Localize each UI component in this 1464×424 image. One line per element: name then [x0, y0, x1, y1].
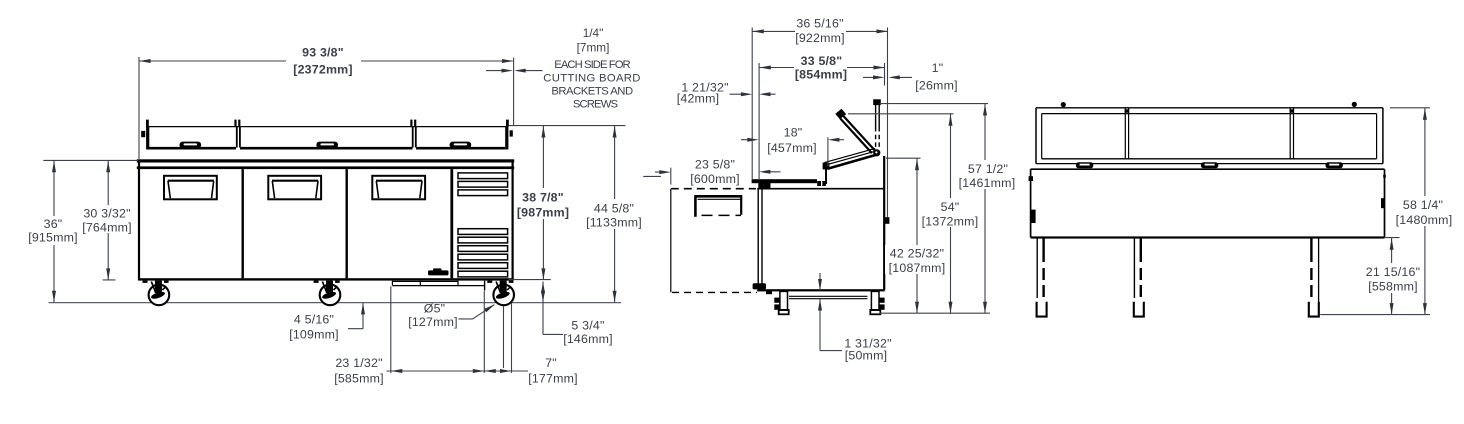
svg-text:[922mm]: [922mm]	[795, 31, 845, 45]
svg-text:[146mm]: [146mm]	[563, 332, 613, 346]
svg-text:[1461mm]: [1461mm]	[959, 176, 1016, 190]
svg-text:54": 54"	[941, 200, 960, 214]
svg-text:[558mm]: [558mm]	[1368, 280, 1418, 294]
svg-text:38 7/8": 38 7/8"	[522, 190, 564, 204]
svg-text:23 5/8": 23 5/8"	[695, 157, 735, 171]
svg-text:[127mm]: [127mm]	[408, 315, 458, 329]
svg-text:[42mm]: [42mm]	[677, 91, 720, 105]
svg-text:36 5/16": 36 5/16"	[796, 16, 843, 30]
svg-text:4 5/16": 4 5/16"	[294, 312, 334, 326]
svg-text:33 5/8": 33 5/8"	[801, 54, 843, 68]
svg-text:[915mm]: [915mm]	[28, 230, 78, 244]
svg-text:[2372mm]: [2372mm]	[293, 62, 352, 76]
svg-text:[457mm]: [457mm]	[767, 141, 817, 155]
svg-text:EACH SIDE FOR: EACH SIDE FOR	[554, 59, 630, 71]
svg-text:7": 7"	[545, 356, 557, 370]
svg-text:SCREWS: SCREWS	[573, 99, 619, 111]
svg-text:[1087mm]: [1087mm]	[889, 261, 946, 275]
svg-text:[854mm]: [854mm]	[795, 67, 847, 81]
svg-text:[764mm]: [764mm]	[82, 221, 132, 235]
svg-text:[585mm]: [585mm]	[334, 371, 384, 385]
svg-text:[7mm]: [7mm]	[577, 41, 610, 55]
svg-text:BRACKETS AND: BRACKETS AND	[551, 86, 633, 98]
svg-text:36": 36"	[44, 217, 63, 231]
svg-text:44 5/8": 44 5/8"	[594, 201, 634, 215]
svg-text:[1480mm]: [1480mm]	[1396, 213, 1453, 227]
svg-text:58 1/4": 58 1/4"	[1403, 198, 1443, 212]
svg-text:[26mm]: [26mm]	[915, 78, 958, 92]
svg-text:[600mm]: [600mm]	[690, 172, 740, 186]
svg-text:30 3/32": 30 3/32"	[83, 206, 130, 220]
svg-text:CUTTING BOARD: CUTTING BOARD	[543, 72, 640, 84]
svg-text:42 25/32": 42 25/32"	[890, 246, 944, 260]
svg-text:[177mm]: [177mm]	[528, 371, 578, 385]
svg-text:93 3/8": 93 3/8"	[302, 45, 344, 59]
svg-text:23 1/32": 23 1/32"	[335, 356, 382, 370]
svg-text:[1133mm]: [1133mm]	[586, 215, 642, 229]
svg-text:5 3/4": 5 3/4"	[571, 318, 604, 332]
svg-text:[987mm]: [987mm]	[517, 205, 569, 219]
svg-text:[1372mm]: [1372mm]	[922, 214, 979, 228]
svg-text:57 1/2": 57 1/2"	[968, 162, 1008, 176]
svg-text:Ø5": Ø5"	[424, 301, 446, 315]
svg-text:18": 18"	[784, 125, 803, 139]
svg-text:21 15/16": 21 15/16"	[1366, 265, 1420, 279]
svg-text:1/4": 1/4"	[583, 26, 604, 40]
svg-text:1": 1"	[932, 61, 944, 75]
svg-text:[109mm]: [109mm]	[289, 327, 339, 341]
svg-text:[50mm]: [50mm]	[845, 348, 888, 362]
